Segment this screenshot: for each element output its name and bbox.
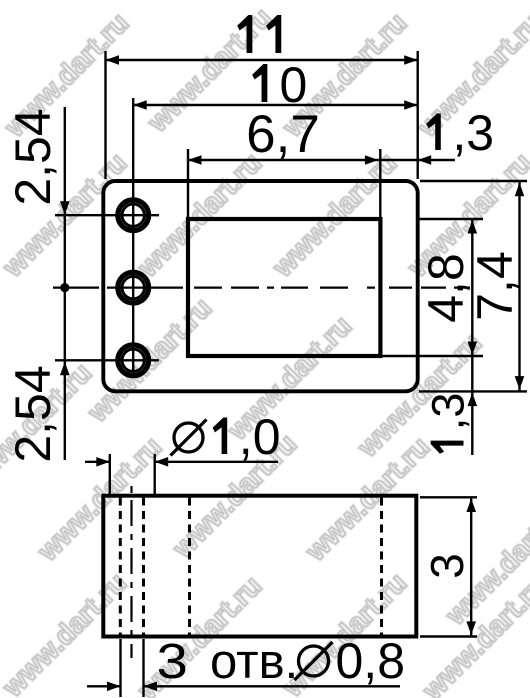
hole 2 inner ring [122,276,144,298]
dim line 6,7 / 1,3 [188,159,455,161]
arrow 2,54 lower (points up) [60,362,70,376]
svg-text:4,8: 4,8 [418,253,474,323]
dim line height 3 [470,497,472,636]
ext line hole 0,8 left [119,639,121,697]
extension line part left edge up [104,51,106,179]
arrow 11 right [404,55,418,65]
vertical axis line through holes [132,98,134,371]
svg-text:3: 3 [421,553,473,579]
arrow 7,4 top [515,183,525,197]
arrow height3 top [466,499,476,513]
arrow 4,8 top [468,220,478,234]
ext line height3 top [420,496,477,498]
svg-text:6,7: 6,7 [246,105,320,164]
arrow 7,4 bottom [515,376,525,390]
arrow 1,3 top (points left at part edge) [418,155,432,165]
arrow 0,8 right (points left) [144,682,158,692]
dim line 10 [133,104,418,106]
hole1 horizontal center stub [55,214,159,216]
hole 3 inner ring [122,349,144,371]
arrow 1,3 bottom-right (points up) [468,393,478,407]
dim line dia1.0 left tail [85,461,110,463]
ext line dia1.0 right [153,454,155,496]
part body outline (top view) [103,181,417,391]
svg-text:,3: ,3 [423,393,474,431]
svg-text:7,4: 7,4 [467,251,523,321]
extension line inner rect right up [379,149,381,217]
hidden inner-rect right projection [380,498,383,635]
dim line 0,8 right tail / text underline [144,685,401,687]
svg-text:2,54: 2,54 [5,108,61,205]
junction dot on centerline [60,283,69,292]
hole 3 outer ring [118,345,149,376]
diameter symbol for 1,0 [171,420,207,456]
label 1,3 top [426,105,494,161]
arrow 0,8 left (points right) [107,682,121,692]
hole 1 outer ring [118,200,149,231]
arrow 10 right [404,100,418,110]
ext inner-rect bottom right [381,355,483,357]
svg-text:3: 3 [157,634,188,689]
inner opening rectangle [188,219,380,356]
svg-text:2,54: 2,54 [5,365,61,462]
ext line height3 bottom [420,635,477,637]
ext inner-rect top right [418,218,483,220]
ext line hole 0,8 right [142,639,144,697]
arrow 6,7 left [188,155,202,165]
ext line dia1.0 left [109,454,111,495]
arrows, top view [60,55,524,406]
arrow 6,7 right [365,155,379,165]
label 11 [237,15,281,53]
dim line 7,4 vertical [518,181,520,391]
dim line 0,8 left tail [87,685,121,687]
svg-text:отв.: отв. [210,635,298,689]
dim line 11 [106,59,418,61]
arrow height3 bottom [466,621,476,635]
dim line 2,54 vertical [64,107,66,460]
arrow 11 left [106,55,120,65]
label 1,0 of dia [213,409,281,465]
hole 1 inner ring [122,204,144,226]
side view body rectangle [103,496,416,637]
label 1,3 bottom right (rotated) [423,393,474,454]
hidden inner-rect left projection [188,498,191,635]
hole 2 outer ring [118,272,149,303]
hole axis line (dash-dot segments) [130,486,132,658]
arrow 10 left [133,100,147,110]
dim line dia1.0 right tail [155,461,278,463]
hole3 horizontal center stub [55,359,159,361]
horizontal main centerline (dash-dot segments) [53,287,470,289]
extension line inner rect left up [187,149,189,217]
diameter symbol for 0,8 [295,642,333,680]
hidden hole right edge [142,498,145,635]
extension line part right edge up [417,51,419,179]
label 10 [252,57,307,113]
dim line 4,8 + 1,3 vertical [471,219,473,455]
svg-text:,3: ,3 [452,105,494,161]
arrow dia1.0 left (points right) [96,457,110,467]
arrow 4,8 bottom [468,342,478,356]
ext part bottom right [419,390,527,392]
svg-text:0,8: 0,8 [336,633,406,689]
ext part top right [420,180,527,182]
hidden hole left edge [119,498,122,635]
arrow 2,54 upper (points down) [60,201,70,215]
arrows, bottom view [96,457,476,691]
svg-text:,0: ,0 [239,409,281,465]
arrow dia1.0 right (points left) [155,457,169,467]
